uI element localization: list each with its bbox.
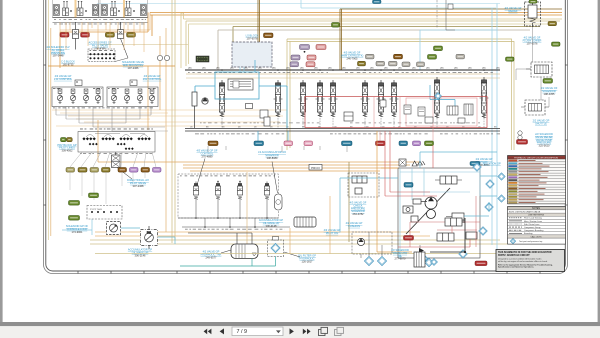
label 4/3 valve right: [143, 74, 162, 81]
pump swash diagonal: [406, 188, 450, 234]
wire orange verticals left: [98, 36, 160, 162]
pump wires orange: [377, 131, 412, 252]
sheet frame outer border: [44, 0, 568, 274]
servo piston: [413, 199, 427, 204]
svg-text:(A6): (A6): [314, 67, 318, 70]
blue diamond a: [473, 163, 481, 171]
wire tan across bank a: [186, 73, 500, 75]
wire web below third bank: [70, 152, 156, 167]
blue diamond e: [459, 250, 467, 258]
wire callout lines left: [115, 58, 128, 62]
PRCO chip: [309, 165, 322, 171]
green pill top-mid: [332, 23, 340, 28]
bank label smudges top: [188, 71, 328, 74]
toolbar divider: [0, 322, 600, 326]
connector label pills under bank1: [60, 33, 135, 38]
svg-text:(A6): (A6): [356, 67, 360, 70]
red boundary inner lines: [374, 97, 433, 146]
pump cyan web: [400, 168, 480, 258]
LS block: [232, 42, 272, 67]
left pump spool: [352, 176, 367, 194]
svg-text:306-2146: 306-2146: [135, 253, 147, 257]
LS block label: [246, 34, 259, 41]
inter-spool component b: [264, 112, 353, 126]
svg-text:(A6): (A6): [216, 67, 220, 70]
tank pump dashed box: [352, 232, 392, 254]
pilot group 2 right box: [107, 87, 158, 107]
teal pill pump: [404, 183, 413, 188]
label accessories pilot lines: [88, 41, 111, 51]
svg-text:308-8089: 308-8089: [267, 156, 279, 160]
pink pill cluster row2 b: [307, 55, 316, 60]
wire gray nest 5: [218, 30, 530, 70]
pink pill cluster row2 a: [291, 55, 300, 60]
pilot valve R1: [111, 89, 116, 104]
green pill pair left of travel bank: [61, 138, 73, 142]
green pill under manifold: [69, 216, 80, 221]
pilot valve R4: [149, 89, 154, 104]
lower cluster top labels: [180, 175, 275, 178]
main control spool 6: [361, 80, 370, 117]
sheet frame inner border: [46, 0, 566, 271]
wire pump bottom link: [121, 228, 175, 244]
green pill pump A: [89, 193, 99, 198]
red pill pump left: [404, 236, 414, 241]
cyan text pump top: [483, 162, 501, 166]
lower cluster rails: [178, 197, 290, 227]
svg-text:PART#: 4294078 HC CIRCUIT: PART#: 4294078 HC CIRCUIT: [498, 254, 530, 257]
wire tan across bank b: [186, 77, 500, 79]
svg-text:B01: B01: [147, 232, 152, 235]
blue diamond f small: [435, 93, 442, 100]
pill row under main bank: [208, 141, 434, 146]
filter callout line: [284, 252, 300, 257]
frame zone ticks left: [44, 65, 47, 205]
pump return junction dot: [464, 251, 466, 253]
regulator spool lower: [445, 218, 465, 226]
wire orange main pair top: [150, 12, 562, 15]
tank callout line: [221, 250, 231, 253]
label 2/2 solenoid bottom: [391, 248, 409, 261]
svg-text:R.H. CONTROL: R.H. CONTROL: [143, 77, 162, 81]
cyan LS stub: [240, 67, 244, 72]
blue diamond d: [479, 227, 487, 235]
label relief top right: [505, 6, 522, 13]
svg-text:Test port and pressure tap: Test port and pressure tap: [519, 240, 543, 243]
svg-text:will be dry, not engine off an: will be dry, not engine off and accumula…: [498, 260, 548, 263]
toolbar background: [0, 326, 600, 338]
lower cluster bottom labels: [185, 228, 285, 231]
cyan diamond left of legend a: [498, 173, 505, 180]
legend table header: [508, 156, 566, 160]
lower cluster dashed box: [178, 174, 279, 218]
olive pill cluster left of labels: [358, 61, 366, 66]
small block under TEST: [246, 104, 253, 109]
bank1 orange pilot risers: [76, 0, 125, 18]
svg-text:ROTATION GP: ROTATION GP: [483, 162, 501, 166]
svg-text:(A6): (A6): [496, 67, 500, 70]
dark legend chip: [196, 56, 209, 62]
main pump circles: [425, 197, 437, 219]
pump left gear block: [403, 206, 413, 213]
dark khaki vertical left of pump: [348, 162, 350, 242]
travel manifold top labels: [80, 128, 153, 131]
green pill pump B: [69, 201, 80, 206]
svg-text:(A6): (A6): [384, 67, 388, 70]
pilot valve L3: [83, 89, 88, 104]
red pill right under bank: [517, 140, 528, 145]
label filter right: [298, 254, 316, 264]
cyan pilot box around left spools: [215, 72, 259, 99]
wire cyan right tall loop: [492, 4, 497, 251]
green pill top right: [529, 0, 537, 3]
toolbar next button: [290, 328, 294, 334]
regulator small block: [411, 216, 477, 239]
svg-text:RELIEF: RELIEF: [508, 9, 517, 13]
solenoid valve under bank1 left: [73, 22, 79, 50]
pilot valve L1: [57, 89, 62, 104]
cyan pilot stub: [195, 86, 287, 128]
lower cluster callout line b: [272, 162, 278, 194]
accumulator block: [141, 226, 158, 249]
svg-text:HYDRAULIC CIRCUIT COLOR DESCRI: HYDRAULIC CIRCUIT COLOR DESCRIPTION: [514, 156, 558, 159]
svg-text:(A6): (A6): [440, 67, 444, 70]
pilot group 2 connecting web verticals: [56, 107, 151, 132]
svg-text:THIS SCHEMATIC IS FOR THE 320D: THIS SCHEMATIC IS FOR THE 320D EXCAVATOR: [498, 251, 552, 254]
pilot valve bank 1 port labels: [54, 18, 146, 21]
shuttle valve X component: [112, 152, 133, 179]
lower cluster callout line a: [197, 159, 205, 186]
green pill left col: [506, 57, 515, 61]
label directional solenoid: [127, 178, 149, 188]
label main control valve: [341, 51, 364, 61]
main control spool 7: [377, 80, 386, 117]
red box inner small: [406, 98, 477, 126]
wire khaki outer loop left: [172, 0, 175, 243]
svg-text:263-4782: 263-4782: [353, 212, 365, 216]
teal return line: [180, 257, 276, 267]
main bank bottom rail: [185, 129, 500, 132]
label c-3 block: [61, 60, 75, 67]
label tank: [201, 250, 222, 260]
aux pump circle: [357, 238, 364, 245]
travel manifold diamond clusters: [82, 137, 150, 150]
svg-text:198-4355: 198-4355: [544, 92, 556, 96]
wire orange bus y110-125 web: [52, 110, 287, 126]
notes table border: [508, 207, 566, 245]
wire cyan left lower: [62, 219, 92, 235]
svg-text:(A6): (A6): [244, 67, 248, 70]
svg-text:(A6): (A6): [230, 67, 234, 70]
lower cluster valve 4: [264, 182, 269, 200]
green pill right-mid a: [434, 46, 443, 51]
travel pilot manifold box: [78, 132, 155, 153]
callouts row: [508, 238, 566, 244]
toolbar page input: [232, 327, 283, 336]
filter diamond pair B2: [425, 258, 433, 266]
legend table border: [508, 156, 566, 204]
small block top right-center: [448, 4, 453, 9]
pilot valve R3: [137, 89, 142, 104]
wire olive nest 4: [233, 27, 540, 45]
pink pill cluster row3 b: [306, 62, 315, 67]
svg-text:(A6): (A6): [454, 67, 458, 70]
red boundary box main: [305, 97, 487, 128]
LS symbol circles: [518, 131, 522, 140]
svg-text:165-8735: 165-8735: [63, 62, 75, 66]
wire orange horizontal mid-left: [60, 32, 148, 68]
frame zone ticks bottom: [78, 271, 540, 274]
travel manifold bottom labels: [80, 152, 152, 155]
main control spool 1: [218, 80, 227, 117]
label lower accumulator: [259, 218, 284, 228]
svg-text:PILOT OIL: PILOT OIL: [326, 231, 339, 235]
svg-text:CUSHION: CUSHION: [348, 224, 360, 228]
pilot group 2 port smudge: [53, 107, 153, 110]
viewer left border: [0, 0, 3, 322]
relief valve top right: [525, 0, 541, 27]
bank label smudges below rail: [195, 133, 284, 136]
lower cluster junction dots: [195, 181, 268, 228]
toolbar last-page button: [303, 329, 311, 335]
label solenoid manifold: [66, 224, 89, 234]
pink pill cluster row3 a: [290, 62, 299, 67]
pump red web: [410, 196, 480, 247]
orange vertical x247: [246, 172, 248, 254]
orange vertical drops bottom: [290, 196, 330, 254]
pilot valve bank 1 outline left: [53, 0, 99, 18]
pump dark return line: [430, 218, 465, 252]
wire orange left drop: [148, 12, 152, 36]
svg-text:325-5620: 325-5620: [539, 144, 551, 148]
accumulator capsule: [275, 194, 283, 210]
inter-spool component a: [260, 110, 268, 118]
cyan diamond left of legend b: [498, 195, 505, 202]
wire khaki inner left vertical: [48, 0, 50, 240]
svg-text:(A6): (A6): [258, 67, 262, 70]
svg-text:(A6): (A6): [286, 67, 290, 70]
wire orange left inner vertical: [51, 28, 166, 236]
blue diamond c: [485, 203, 493, 211]
svg-text:(A6): (A6): [328, 67, 332, 70]
svg-text:PRCO: PRCO: [311, 166, 320, 170]
pink pill cluster row1 a: [300, 45, 310, 50]
pump wires red: [385, 131, 470, 247]
line patterns header: [508, 213, 566, 216]
label check valve mid: [350, 201, 367, 217]
label right of bank: [476, 157, 493, 167]
wire khaki nest 3: [189, 24, 549, 64]
left bank feeder component: [192, 92, 197, 128]
main bank top tiny labels: [188, 67, 500, 70]
pump circuit outline: [398, 168, 480, 258]
label 4/3 valve left: [54, 74, 73, 81]
connector grid block: [88, 49, 116, 62]
label swing motor left: [196, 149, 217, 159]
svg-text:(A6): (A6): [300, 67, 304, 70]
regulator spool mid: [437, 233, 454, 241]
brown pill right a: [394, 54, 403, 59]
wire khaki bottom long: [90, 240, 510, 244]
main control spool 8: [390, 80, 399, 117]
disclaimer note box: [496, 250, 565, 272]
wire khaki bottom y253: [95, 253, 515, 255]
lower cluster valve 2: [215, 182, 220, 200]
pilot valve bank 1 outline right: [100, 0, 148, 18]
svg-text:(A6): (A6): [272, 67, 276, 70]
svg-text:ELEV 1 KEYNON CHARTS VALVE: ELEV 1 KEYNON CHARTS VALVE: [509, 210, 541, 213]
svg-text:(A6): (A6): [370, 67, 374, 70]
pill row drop lines lower-left: [70, 172, 145, 204]
wire tan nest 2: [186, 21, 560, 66]
pink cluster junction dot: [304, 51, 306, 53]
svg-text:P1 P2 T A B: P1 P2 T A B: [90, 208, 102, 211]
green pill right column: [543, 79, 553, 84]
right column connecting wires: [516, 27, 549, 107]
wire dark tan vertical A: [258, 0, 260, 44]
wire cyan top horizontal: [301, 0, 496, 8]
wire orange mid horizontal y162-172: [98, 162, 420, 171]
label right column tall: [535, 132, 553, 148]
gray pills far right pair: [402, 62, 425, 67]
wire pale-cyan top horizontal: [97, 3, 500, 5]
svg-text:(A6): (A6): [468, 67, 472, 70]
svg-text:(A6): (A6): [342, 67, 346, 70]
toolbar prev button: [220, 328, 224, 334]
main control spool 5: [329, 80, 338, 117]
small dark pump symbol: [419, 248, 424, 253]
svg-text:(A6): (A6): [398, 67, 402, 70]
cooler block bottom: [414, 252, 425, 267]
callouts header: [508, 235, 566, 238]
svg-text:270-4889: 270-4889: [202, 154, 214, 158]
filter diamond pair B1: [419, 254, 427, 262]
lower cluster valve 1: [193, 182, 198, 200]
wire orange risers under banks: [60, 22, 144, 52]
frame zone ticks right: [565, 65, 567, 205]
wire khaki link left: [100, 44, 188, 46]
filter diamond b: [377, 256, 386, 265]
pilot valve L2: [70, 89, 75, 104]
green pill right of flush label: [552, 42, 561, 46]
toolbar copy icon 2: [335, 327, 344, 335]
label 4/3 check bottom: [324, 228, 341, 235]
filter dashed box: [268, 237, 284, 257]
connector pill row mid-left: [66, 168, 161, 173]
svg-text:306-4148: 306-4148: [266, 224, 278, 228]
label travel pilot left: [57, 143, 77, 153]
line pattern rows: [508, 216, 566, 235]
svg-text:249-6577: 249-6577: [206, 255, 218, 259]
wire pill drops row y146-162: [208, 146, 347, 152]
hydraulic tank: [231, 244, 258, 259]
pilot valve bank 1 valves: [53, 1, 148, 22]
label flush valve: [523, 36, 542, 46]
inter-spool component c small relief: [380, 100, 473, 123]
solenoid block right of pump: [446, 213, 464, 220]
filter diamond main: [271, 243, 280, 252]
svg-text:309-4562: 309-4562: [62, 149, 74, 153]
pump wires cyan: [340, 152, 497, 232]
legend color rows: [508, 159, 566, 204]
teal pill top edge: [373, 0, 382, 4]
wire tan nest 1: [181, 13, 562, 68]
svg-text:SHUTTLE: SHUTTLE: [535, 121, 547, 125]
pump top tiny symbols: [399, 159, 425, 166]
main bank top rail: [185, 69, 500, 71]
green pill right-mid b: [428, 55, 437, 60]
svg-text:(A6): (A6): [202, 67, 206, 70]
right valve block 2: [521, 100, 549, 115]
main control spool 9: [433, 77, 442, 118]
svg-text:L.H. CONTROL: L.H. CONTROL: [54, 77, 73, 81]
svg-text:277-8870: 277-8870: [395, 257, 407, 261]
label accumulator: [128, 248, 153, 258]
main control spool 2: [274, 80, 283, 117]
rail junction dots: [221, 69, 485, 71]
svg-text:174-9901: 174-9901: [72, 230, 84, 234]
olive pill on lines top right: [548, 22, 557, 26]
label below block2: [533, 119, 550, 126]
label left solenoid callout: [46, 45, 69, 58]
main control spool 3: [299, 80, 308, 117]
label solenoid valve right: [122, 60, 144, 70]
teal label pump top: [470, 162, 480, 166]
pilot group 2 left box: [52, 87, 103, 107]
wire orange bus y66: [48, 65, 175, 67]
right valve block 1: [526, 62, 552, 77]
svg-text:(A6): (A6): [426, 67, 430, 70]
svg-text:197-3448: 197-3448: [53, 54, 65, 58]
lower cluster valve 3: [237, 182, 242, 200]
gauge block: [107, 222, 121, 235]
bottom drop wires: [361, 232, 420, 258]
cyan drop lines bank: [255, 60, 455, 141]
filter diamond a: [364, 256, 373, 265]
svg-text:(A6): (A6): [482, 67, 486, 70]
svg-text:126-1817: 126-1817: [302, 259, 314, 263]
main bank bottom tiny labels: [190, 126, 497, 128]
travel manifold link arcs: [86, 134, 148, 138]
notes table header: [508, 207, 566, 210]
label 4/2 below: [346, 221, 363, 228]
riser line x446: [446, 0, 455, 30]
wire khaki big loop: [287, 39, 514, 150]
brown pill near LS block: [264, 33, 274, 38]
wire dark tan vertical B: [340, 9, 562, 70]
wire cyan pump area: [420, 30, 497, 70]
wire orange bank1 link: [60, 12, 150, 30]
pilot group 2 web steps: [56, 115, 168, 131]
black rail lower left: [188, 233, 252, 244]
gray pill cluster c: [389, 61, 398, 66]
svg-text:(A6): (A6): [188, 67, 192, 70]
small diamond bottom right: [431, 259, 438, 266]
pilot valve L4: [95, 89, 100, 104]
main control spool 4: [316, 80, 325, 117]
svg-text:197-6076: 197-6076: [247, 36, 259, 40]
left pump dashed box: [348, 173, 379, 197]
regulator spool top: [435, 176, 462, 184]
svg-text:246-7905: 246-7905: [347, 56, 359, 60]
bank vertical dashed drops: [222, 118, 484, 129]
manifold dashed block: [87, 206, 122, 220]
label right block 2: [541, 86, 558, 96]
red pill pump bottom: [475, 261, 487, 266]
accumulator wide block: [294, 217, 316, 227]
svg-text:(A6): (A6): [412, 67, 416, 70]
svg-text:Specifications and Systems Ope: Specifications and Systems Operations.: [498, 266, 535, 269]
